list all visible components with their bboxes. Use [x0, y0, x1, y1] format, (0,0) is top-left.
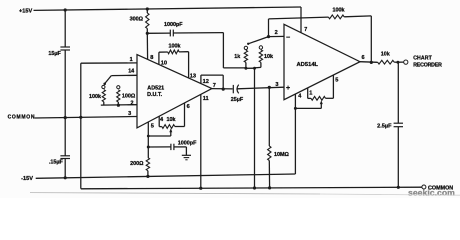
svg-text:4: 4	[160, 117, 164, 123]
svg-text:3: 3	[275, 82, 278, 88]
svg-text:1k: 1k	[234, 54, 240, 60]
svg-text:7: 7	[304, 27, 307, 33]
svg-text:−: −	[286, 34, 290, 41]
svg-text:1000pF: 1000pF	[164, 22, 183, 28]
svg-text:2.5µF: 2.5µF	[377, 123, 392, 129]
svg-text:AD514L: AD514L	[297, 62, 319, 68]
svg-text:3: 3	[128, 111, 131, 117]
svg-text:8: 8	[150, 55, 153, 61]
svg-text:1: 1	[309, 91, 312, 97]
svg-text:6: 6	[187, 104, 190, 110]
svg-text:2: 2	[131, 100, 134, 106]
svg-text:10MΩ: 10MΩ	[274, 152, 289, 158]
svg-text:.15µF: .15µF	[49, 160, 64, 166]
svg-text:+15V: +15V	[19, 9, 32, 15]
svg-text:5: 5	[151, 124, 154, 130]
svg-text:14: 14	[128, 69, 134, 75]
svg-text:5: 5	[335, 77, 338, 83]
svg-text:11: 11	[203, 96, 209, 102]
svg-text:COMMON: COMMON	[8, 114, 36, 120]
svg-text:10k: 10k	[381, 52, 390, 58]
svg-text:4: 4	[298, 93, 302, 99]
svg-text:300Ω: 300Ω	[130, 16, 144, 22]
svg-text:10: 10	[161, 60, 167, 66]
svg-text:RECORDER: RECORDER	[413, 62, 442, 68]
svg-text:25µF: 25µF	[231, 97, 244, 103]
svg-text:D.U.T.: D.U.T.	[147, 92, 162, 98]
svg-text:13: 13	[190, 74, 196, 80]
svg-text:100k: 100k	[169, 44, 181, 50]
svg-text:AD521: AD521	[147, 85, 164, 91]
svg-text:1000pF: 1000pF	[178, 141, 197, 147]
svg-text:100Ω: 100Ω	[122, 94, 136, 100]
svg-text:7: 7	[213, 83, 216, 89]
svg-text:seekic.com: seekic.com	[408, 188, 455, 198]
svg-text:1: 1	[130, 57, 133, 63]
svg-text:200Ω: 200Ω	[130, 161, 144, 167]
svg-text:6: 6	[362, 55, 365, 61]
svg-text:2: 2	[275, 30, 278, 36]
svg-text:+: +	[286, 85, 290, 92]
svg-text:10k: 10k	[167, 117, 176, 123]
svg-text:10k: 10k	[264, 54, 273, 60]
svg-text:12: 12	[203, 79, 209, 85]
svg-text:100k: 100k	[89, 94, 101, 100]
svg-text:CHART: CHART	[413, 56, 432, 62]
svg-text:100k: 100k	[333, 8, 345, 14]
svg-text:-15V: -15V	[21, 176, 33, 182]
svg-text:15µF: 15µF	[48, 51, 61, 57]
